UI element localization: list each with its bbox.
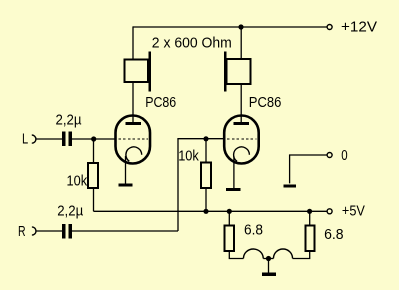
wire riser to grid V2: [177, 138, 224, 140]
node heater center: [266, 256, 271, 261]
earpiece right (2x600 Ohm) box: [227, 59, 251, 84]
svg-text:0: 0: [341, 148, 347, 164]
wire top +12V rail: [133, 26, 327, 28]
tube V1 envelope: [116, 116, 151, 164]
terminal +12V: [327, 25, 332, 30]
wire R input to cap: [36, 230, 62, 232]
terminal R input: [32, 227, 36, 235]
terminal L input: [32, 135, 36, 143]
svg-text:+12V: +12V: [341, 20, 377, 36]
ground heater: [262, 273, 276, 276]
wire V2 cathode lead: [233, 156, 235, 188]
tube V2 anode plate: [234, 122, 250, 125]
svg-text:6.8: 6.8: [324, 227, 344, 243]
resistor R3 6.8: [225, 226, 234, 251]
wire rail to R4: [309, 211, 311, 225]
heater f2 arc: [273, 249, 292, 259]
wire center to heater f2: [269, 258, 274, 260]
tube V1 anode plate: [125, 122, 140, 125]
wire C1 to grid V1: [72, 138, 116, 140]
resistor R2 10k: [201, 163, 211, 189]
terminal +5V: [327, 209, 332, 214]
wire grid V2 to R2: [205, 139, 207, 163]
svg-text:R: R: [18, 224, 26, 240]
wire 0 to ground: [290, 155, 327, 183]
earpiece right pad bar: [224, 52, 226, 92]
tube V2 cathode arc: [234, 147, 250, 161]
svg-text:10k: 10k: [178, 149, 199, 165]
wire R3 to heater: [229, 251, 243, 259]
heater f1 arc: [243, 249, 263, 258]
svg-text:2,2µ: 2,2µ: [56, 112, 83, 128]
wire right anode lead: [240, 84, 242, 124]
wire heater f2 to R4: [293, 251, 310, 259]
svg-text:PC86: PC86: [249, 95, 281, 111]
ground V2: [226, 188, 240, 191]
wire heater center to ground: [268, 259, 270, 273]
tube V1 cathode arc: [126, 147, 142, 161]
node R4 rail: [307, 209, 312, 214]
wire R1 to +5V rail: [93, 188, 95, 212]
wire L input to cap: [36, 138, 62, 140]
resistor R4 6.8: [305, 226, 314, 251]
node R2 rail: [203, 209, 208, 214]
wire left anode riser upper: [132, 26, 134, 59]
wire heater f1 to center: [263, 258, 268, 260]
wire right anode riser upper: [240, 26, 242, 59]
node R3 rail: [227, 209, 232, 214]
svg-text:L: L: [22, 132, 28, 148]
tube V2 envelope: [224, 116, 259, 164]
wire rail to R3: [228, 211, 230, 225]
wire R-channel riser: [177, 139, 179, 231]
svg-text:+5V: +5V: [342, 204, 365, 220]
svg-text:10k: 10k: [67, 173, 88, 189]
svg-text:2,2µ: 2,2µ: [57, 204, 84, 220]
capacitor C2 2,2u plates: [62, 224, 66, 239]
svg-text:PC86: PC86: [145, 95, 176, 111]
node grid V2: [203, 136, 208, 141]
wire left anode lead: [132, 82, 134, 124]
wire +5V rail: [94, 210, 327, 212]
svg-text:2 x 600 Ohm: 2 x 600 Ohm: [152, 35, 232, 51]
capacitor C1 2,2u plates: [62, 132, 66, 147]
wire C2 to riser: [72, 230, 178, 232]
earpiece left pad bar: [148, 51, 150, 91]
tube V1 grid (dashed): [119, 138, 149, 140]
terminal 0: [327, 153, 332, 158]
wire R2 to +5V rail: [205, 188, 207, 211]
wire V1 cathode lead: [125, 156, 127, 184]
resistor R1 10k: [88, 163, 98, 188]
ground 0: [283, 184, 295, 187]
svg-text:6.8: 6.8: [244, 223, 263, 239]
node junction top: [238, 24, 243, 29]
earpiece left (2x600 Ohm) box: [125, 60, 148, 82]
ground V1: [119, 184, 133, 187]
tube V2 grid (dashed): [227, 138, 257, 140]
wire grid V1 to R1: [93, 139, 95, 163]
node grid V1: [91, 136, 96, 141]
